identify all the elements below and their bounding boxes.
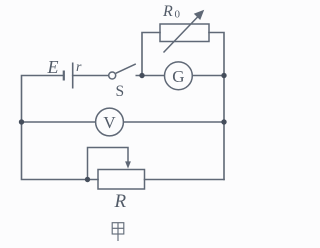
svg-text:V: V bbox=[103, 113, 116, 132]
wire: R0 right to right rail bbox=[209, 33, 224, 180]
resistor R0 box bbox=[160, 24, 209, 42]
wire: rheostat right to bottom-right corner bbox=[145, 179, 225, 181]
battery E r bbox=[64, 63, 73, 89]
wire: voltmeter branch right bbox=[124, 121, 225, 123]
svg-text:R: R bbox=[162, 3, 173, 20]
voltmeter V bbox=[96, 108, 124, 136]
arrow through R0 bbox=[164, 10, 205, 53]
wire: voltmeter branch left bbox=[22, 121, 96, 123]
switch pivot circle bbox=[109, 72, 116, 79]
wire: G to right node bbox=[192, 75, 224, 77]
battery long plate bbox=[72, 63, 74, 89]
switch S bbox=[109, 64, 136, 79]
wire: top-left from corner to battery bbox=[22, 76, 99, 180]
wire: battery to switch bbox=[73, 75, 110, 77]
svg-text:E: E bbox=[47, 57, 59, 77]
galvanometer U=G bbox=[165, 62, 193, 90]
switch lever bbox=[116, 64, 136, 73]
junction node right-middle bbox=[221, 119, 226, 124]
svg-text:S: S bbox=[116, 83, 125, 100]
rheostat wiper arm bbox=[88, 148, 131, 180]
battery short plate bbox=[63, 71, 65, 81]
rheostat R box bbox=[98, 170, 145, 190]
svg-text:r: r bbox=[76, 60, 82, 75]
svg-text:G: G bbox=[172, 67, 184, 86]
junction node A (after switch) bbox=[139, 73, 144, 78]
wire: switch to G bbox=[136, 75, 164, 77]
svg-text:R: R bbox=[114, 191, 127, 212]
junction node bottom (wiper tap) bbox=[85, 177, 90, 182]
junction node right-top bbox=[221, 73, 226, 78]
label jia (CJK 甲) drawn as strokes bbox=[112, 223, 124, 241]
wire: node A up to R0 branch bbox=[142, 33, 160, 76]
junction node left-middle bbox=[19, 119, 24, 124]
svg-text:0: 0 bbox=[175, 9, 181, 21]
